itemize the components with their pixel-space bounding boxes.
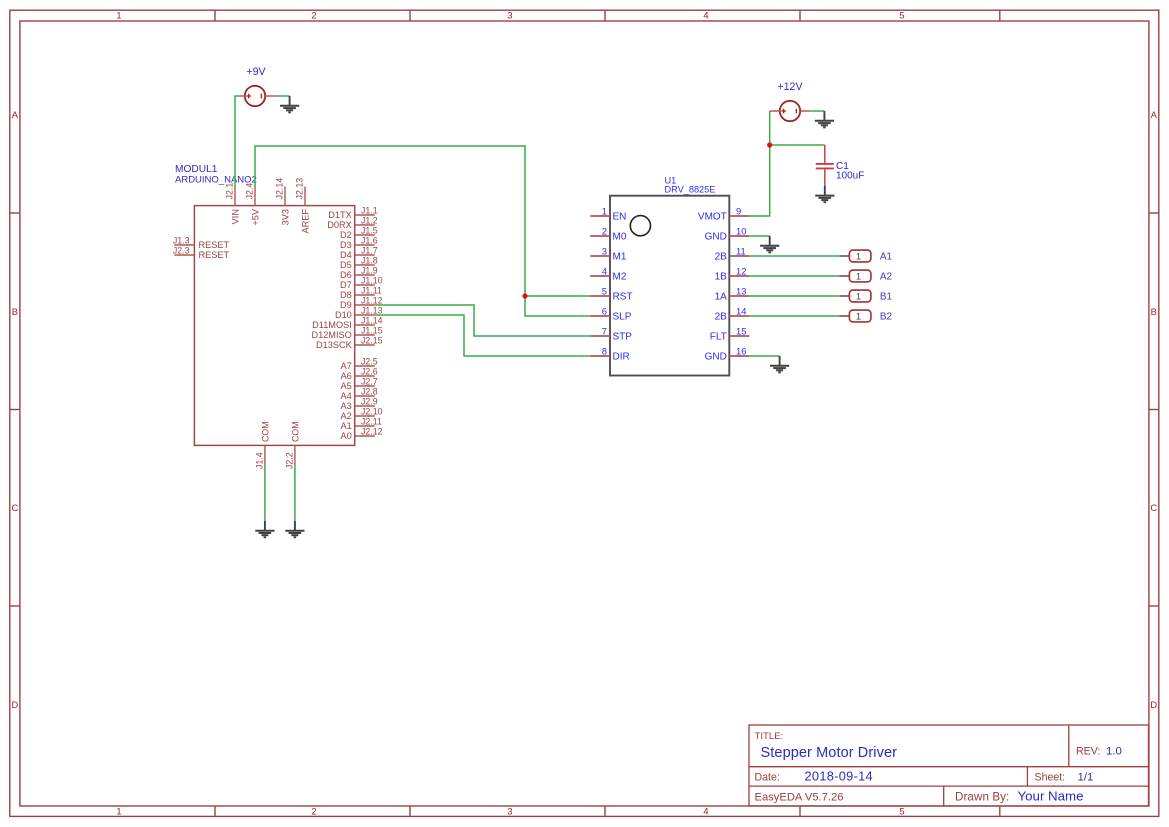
pin J1.7 (D4) of MODUL1 (340, 246, 378, 260)
pin 10 (GND) of U1 (705, 226, 750, 243)
svg-text:A1: A1 (341, 421, 352, 431)
svg-text:12: 12 (736, 266, 746, 277)
svg-text:7: 7 (602, 326, 607, 337)
pin J2.9 (A3) of MODUL1 (341, 397, 378, 411)
pin 11 (2B) of U1 (715, 246, 750, 263)
svg-text:D5: D5 (340, 260, 352, 270)
svg-text:1: 1 (856, 310, 861, 321)
svg-text:3: 3 (507, 10, 512, 20)
pin J1.10 (D7) of MODUL1 (340, 276, 383, 290)
pin 8 (DIR) of U1 (590, 346, 630, 363)
svg-text:1: 1 (856, 290, 861, 301)
svg-text:D13SCK: D13SCK (316, 340, 353, 350)
svg-text:1: 1 (856, 270, 861, 281)
svg-text:J1.1: J1.1 (361, 206, 378, 216)
wire U1 GND pin 16 to ground (749, 355, 779, 357)
pin J1.12 (D9) of MODUL1 (340, 296, 383, 310)
svg-text:3V3: 3V3 (280, 209, 290, 225)
svg-text:D12MISO: D12MISO (311, 330, 351, 340)
wire +9V to MODUL1 VIN (J2.1) (235, 96, 240, 187)
svg-text:5: 5 (899, 10, 904, 20)
svg-text:Drawn By:: Drawn By: (955, 790, 1009, 803)
svg-text:STP: STP (613, 332, 633, 343)
svg-text:M0: M0 (613, 232, 627, 243)
svg-text:D3: D3 (340, 240, 352, 250)
pin 5 (RST) of U1 (590, 286, 632, 303)
pin J2.15 (D13SCK) of MODUL1 (316, 336, 383, 350)
wire branch to U1 RST pin 5 (525, 295, 590, 297)
IC U1 body (610, 196, 729, 376)
svg-text:D7: D7 (340, 280, 352, 290)
svg-text:A2: A2 (880, 272, 893, 283)
svg-text:B1: B1 (880, 292, 893, 303)
svg-text:GND: GND (705, 352, 727, 363)
svg-text:C: C (12, 503, 19, 513)
svg-text:D6: D6 (340, 270, 352, 280)
svg-text:A: A (1151, 110, 1158, 120)
svg-text:3: 3 (507, 807, 512, 817)
svg-text:8: 8 (602, 346, 607, 357)
svg-text:B: B (12, 307, 18, 317)
svg-text:SLP: SLP (613, 312, 632, 323)
pin J2.13 (AREF) of MODUL1 (295, 178, 311, 234)
svg-text:RESET: RESET (199, 240, 230, 250)
wire U1 1B pin 12 to connector A2 (749, 275, 839, 277)
wire U1 GND pin 10 to ground (749, 235, 769, 237)
svg-text:4: 4 (703, 807, 708, 817)
ground (MODUL1 COM J1.4) (255, 521, 274, 537)
svg-text:A: A (12, 110, 19, 120)
pin J1.11 (D8) of MODUL1 (340, 286, 382, 300)
pin 9 (VMOT) of U1 (698, 206, 749, 223)
svg-text:+9V: +9V (246, 66, 266, 78)
svg-text:J1.6: J1.6 (361, 236, 378, 246)
svg-text:J2.13: J2.13 (295, 178, 305, 200)
svg-text:Stepper Motor Driver: Stepper Motor Driver (761, 745, 898, 761)
wire D10 (J1.13) to U1 DIR pin 8 (375, 315, 591, 356)
svg-text:A0: A0 (341, 431, 352, 441)
svg-text:1B: 1B (715, 272, 728, 283)
pin J2.12 (A0) of MODUL1 (341, 427, 383, 441)
svg-text:J2.1: J2.1 (225, 183, 235, 200)
svg-text:A7: A7 (341, 361, 352, 371)
svg-text:9: 9 (736, 206, 741, 217)
module MODUL1 body (194, 206, 354, 446)
svg-text:2018-09-14: 2018-09-14 (805, 769, 873, 784)
capacitor C1 100uF (816, 145, 865, 186)
pin J1.4 (COM) of MODUL1 (255, 421, 271, 469)
pin 14 (2B) of U1 (715, 306, 750, 323)
pin J1.15 (D12MISO) of MODUL1 (311, 326, 382, 340)
svg-text:J1.7: J1.7 (361, 246, 378, 256)
svg-text:TITLE:: TITLE: (755, 731, 784, 742)
op-amp/driver IC U1 DRV_8825E designator (665, 175, 716, 194)
module MODUL1 ARDUINO_NANO2 designator (175, 164, 257, 186)
svg-text:J1.4: J1.4 (255, 452, 265, 469)
svg-text:2: 2 (311, 807, 316, 817)
svg-text:J2.3: J2.3 (173, 246, 190, 256)
svg-text:A3: A3 (341, 401, 352, 411)
pin J2.1 (VIN) of MODUL1 (225, 183, 241, 225)
pin J1.2 (D0RX) of MODUL1 (327, 216, 377, 230)
svg-text:J1.15: J1.15 (361, 326, 383, 336)
pin 12 (1B) of U1 (715, 266, 750, 283)
ground (U1 GND pin 16) (770, 356, 789, 372)
connector B1 (1-pin) (839, 290, 892, 303)
ground (right of +12V) (815, 111, 834, 127)
svg-text:J2.9: J2.9 (361, 397, 378, 407)
svg-text:1: 1 (116, 10, 121, 20)
svg-text:J2.4: J2.4 (245, 183, 255, 200)
svg-text:Date:: Date: (755, 771, 780, 783)
svg-text:A6: A6 (341, 371, 352, 381)
pin J2.10 (A2) of MODUL1 (341, 407, 383, 421)
svg-text:Sheet:: Sheet: (1035, 771, 1066, 783)
wire +5V (J2.4) to U1 RST/SLP net (255, 146, 590, 316)
svg-text:4: 4 (703, 10, 708, 20)
svg-text:RST: RST (613, 292, 633, 303)
svg-text:+12V: +12V (777, 81, 803, 93)
svg-text:EasyEDA V5.7.26: EasyEDA V5.7.26 (755, 791, 844, 803)
pin J1.8 (D5) of MODUL1 (340, 256, 378, 270)
ground (right of +9V) (280, 96, 299, 112)
svg-text:6: 6 (602, 306, 607, 317)
svg-text:11: 11 (736, 246, 746, 257)
svg-text:J2.8: J2.8 (361, 387, 378, 397)
svg-text:D1TX: D1TX (328, 210, 352, 220)
svg-text:Your Name: Your Name (1018, 789, 1084, 804)
svg-text:100uF: 100uF (836, 171, 864, 182)
svg-text:B2: B2 (880, 312, 893, 323)
svg-text:VMOT: VMOT (698, 212, 727, 223)
svg-text:COM: COM (290, 421, 300, 442)
svg-text:M2: M2 (613, 272, 627, 283)
svg-text:1/1: 1/1 (1078, 772, 1094, 784)
svg-text:15: 15 (736, 326, 746, 337)
svg-text:D4: D4 (340, 250, 352, 260)
svg-text:J1.10: J1.10 (361, 276, 383, 286)
svg-text:J1.3: J1.3 (173, 236, 190, 246)
junction at VMOT/C1 branch (767, 142, 772, 147)
svg-text:+5V: +5V (250, 208, 260, 225)
svg-text:D11MOSI: D11MOSI (312, 320, 352, 330)
svg-text:J1.12: J1.12 (361, 296, 383, 306)
svg-text:5: 5 (899, 807, 904, 817)
pin J2.8 (A4) of MODUL1 (341, 387, 378, 401)
svg-text:3: 3 (602, 246, 607, 257)
wire U1 2B pin 14 to connector B2 (749, 315, 839, 317)
pin J2.14 (3V3) of MODUL1 (275, 178, 291, 226)
svg-text:D8: D8 (340, 290, 352, 300)
svg-text:DIR: DIR (613, 352, 630, 363)
ground (U1 GND pin 10) (760, 236, 779, 252)
connector A2 (1-pin) (839, 270, 892, 283)
svg-text:D9: D9 (340, 300, 352, 310)
wire +12V right terminal to ground (810, 110, 825, 112)
svg-text:J2.7: J2.7 (361, 377, 378, 387)
svg-text:2B: 2B (715, 252, 728, 263)
pin J2.11 (A1) of MODUL1 (341, 417, 382, 431)
svg-text:D: D (1150, 700, 1157, 710)
pin J2.7 (A5) of MODUL1 (341, 377, 378, 391)
pin 3 (M1) of U1 (590, 246, 627, 263)
pin 1 (EN) of U1 (590, 206, 626, 223)
svg-text:5: 5 (602, 286, 607, 297)
ground (MODUL1 COM J2.2) (285, 521, 304, 537)
pin J1.9 (D6) of MODUL1 (340, 266, 378, 280)
svg-text:4: 4 (602, 266, 607, 277)
svg-text:A5: A5 (341, 381, 352, 391)
svg-text:VIN: VIN (230, 209, 240, 224)
svg-text:1A: 1A (715, 292, 728, 303)
svg-text:J1.11: J1.11 (361, 286, 382, 296)
power source +12V (770, 81, 810, 121)
wire MODUL1 COM (J1.4) to ground (264, 466, 266, 521)
pin J2.6 (A6) of MODUL1 (341, 367, 378, 381)
pin 2 (M0) of U1 (590, 226, 627, 243)
pin J2.4 (+5V) of MODUL1 (245, 183, 261, 226)
svg-text:2: 2 (602, 226, 607, 237)
svg-text:J2.2: J2.2 (285, 452, 295, 469)
svg-text:B: B (1151, 307, 1157, 317)
ground (below C1) (815, 186, 834, 202)
connector B2 (1-pin) (839, 310, 892, 323)
svg-text:2: 2 (311, 10, 316, 20)
pin J1.13 (D10) of MODUL1 (335, 306, 383, 320)
svg-text:AREF: AREF (300, 209, 310, 234)
svg-text:J2.15: J2.15 (361, 336, 383, 346)
pin J1.14 (D11MOSI) of MODUL1 (312, 316, 382, 330)
wire U1 VMOT pin 9 to +12V (749, 111, 769, 216)
svg-text:1: 1 (602, 206, 607, 217)
pin 16 (GND) of U1 (705, 346, 750, 363)
junction at RST branch (522, 293, 527, 298)
svg-text:GND: GND (705, 232, 727, 243)
wire MODUL1 COM (J2.2) to ground (294, 466, 296, 521)
pin J2.2 (COM) of MODUL1 (285, 421, 301, 469)
pin J2.5 (A7) of MODUL1 (341, 357, 378, 371)
pin J2.3 (RESET) of MODUL1 (173, 246, 230, 261)
svg-text:1: 1 (116, 807, 121, 817)
pin J1.5 (D2) of MODUL1 (340, 226, 378, 240)
svg-text:MODUL1: MODUL1 (175, 164, 218, 175)
svg-text:A2: A2 (341, 411, 352, 421)
svg-text:A4: A4 (341, 391, 352, 401)
svg-text:C: C (1150, 503, 1157, 513)
svg-text:M1: M1 (613, 252, 627, 263)
svg-text:J1.8: J1.8 (361, 256, 378, 266)
svg-text:D10: D10 (335, 310, 352, 320)
pin 15 (FLT) of U1 (710, 326, 750, 343)
wire U1 2B pin 11 to connector A1 (749, 255, 839, 257)
power source +9V (240, 66, 275, 106)
svg-text:COM: COM (260, 421, 270, 442)
svg-text:D2: D2 (340, 230, 352, 240)
svg-text:FLT: FLT (710, 332, 727, 343)
svg-text:1: 1 (856, 250, 861, 261)
svg-text:J2.6: J2.6 (361, 367, 378, 377)
svg-text:J1.14: J1.14 (361, 316, 383, 326)
svg-text:16: 16 (736, 346, 746, 357)
pin 6 (SLP) of U1 (590, 306, 632, 323)
svg-text:J2.11: J2.11 (361, 417, 382, 427)
wire D9 (J1.12) to U1 STP pin 7 (375, 305, 591, 336)
svg-text:14: 14 (736, 306, 746, 317)
svg-text:REV:: REV: (1076, 745, 1100, 757)
svg-text:2B: 2B (715, 312, 728, 323)
svg-text:J1.2: J1.2 (361, 216, 378, 226)
svg-text:RESET: RESET (199, 250, 230, 260)
svg-text:EN: EN (613, 212, 627, 223)
pin 7 (STP) of U1 (590, 326, 632, 343)
svg-text:1.0: 1.0 (1106, 746, 1122, 758)
svg-text:DRV_8825E: DRV_8825E (665, 185, 716, 195)
connector A1 (1-pin) (839, 250, 892, 263)
wire +9V right terminal to ground (275, 95, 290, 97)
svg-text:D: D (12, 700, 19, 710)
svg-text:J2.5: J2.5 (361, 357, 378, 367)
pin 13 (1A) of U1 (715, 286, 750, 303)
svg-text:J1.5: J1.5 (361, 226, 378, 236)
svg-text:J2.10: J2.10 (361, 407, 383, 417)
wire branch +12V to capacitor C1 (770, 144, 825, 146)
svg-text:J2.12: J2.12 (361, 427, 383, 437)
svg-text:J1.9: J1.9 (361, 266, 378, 276)
pin 4 (M2) of U1 (590, 266, 627, 283)
svg-text:D0RX: D0RX (327, 220, 352, 230)
pin J1.3 (RESET) of MODUL1 (173, 236, 230, 251)
svg-text:10: 10 (736, 226, 746, 237)
svg-text:A1: A1 (880, 252, 893, 263)
svg-text:13: 13 (736, 286, 746, 297)
pin J1.6 (D3) of MODUL1 (340, 236, 378, 250)
wire U1 1A pin 13 to connector B1 (749, 295, 839, 297)
svg-text:J1.13: J1.13 (361, 306, 383, 316)
IC U1 orientation circle (630, 216, 650, 236)
pin J1.1 (D1TX) of MODUL1 (328, 206, 377, 220)
svg-text:J2.14: J2.14 (275, 178, 285, 200)
